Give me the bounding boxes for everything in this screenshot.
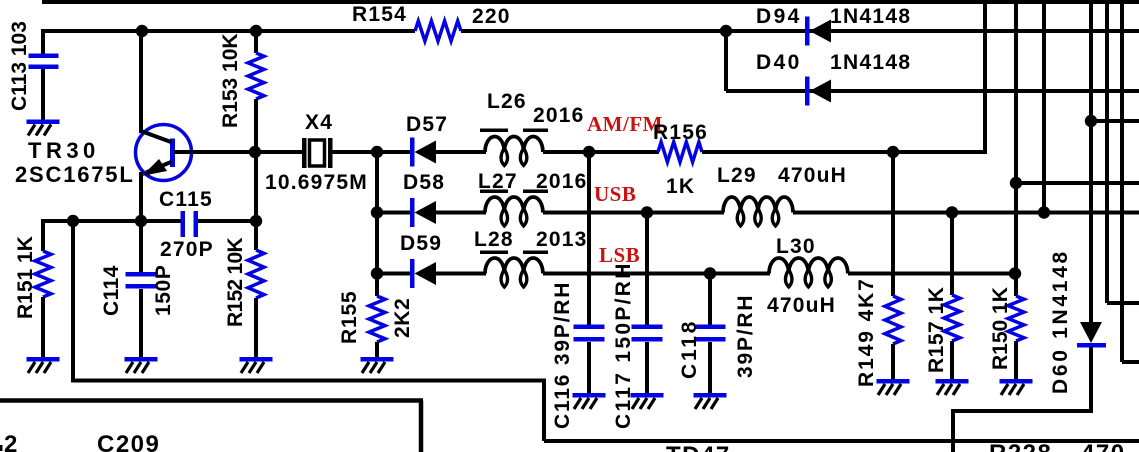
svg-text:1K: 1K <box>666 175 695 198</box>
wire D40 row <box>726 89 1139 93</box>
capacitor C118 39P/RH <box>695 325 726 330</box>
ground (R157) <box>936 379 969 395</box>
node: R150/LSB junction <box>1009 267 1021 279</box>
node: R157 tap <box>946 206 958 218</box>
svg-text:L27: L27 <box>478 170 518 193</box>
inductor L27 <box>485 197 543 213</box>
svg-text:C118: C118 <box>678 319 701 379</box>
svg-text:AM/FM: AM/FM <box>587 112 663 136</box>
svg-text:10.6975M: 10.6975M <box>265 171 368 194</box>
diode D57 <box>410 138 415 167</box>
ground (R150) <box>1000 379 1033 395</box>
wire R153 bottom lead <box>254 99 258 152</box>
svg-text:L28: L28 <box>474 228 514 251</box>
svg-text:2016: 2016 <box>536 170 588 193</box>
resistor R150 1K <box>1008 296 1024 341</box>
resistor R154 220 <box>415 21 461 41</box>
capacitor C115 270P <box>181 211 186 237</box>
node: emitter/C114 junction <box>135 215 147 227</box>
svg-text:R153 10K: R153 10K <box>219 33 242 128</box>
ground (R151) <box>27 357 60 373</box>
svg-text:R154: R154 <box>352 3 407 26</box>
svg-text:D58: D58 <box>403 171 445 194</box>
svg-text:USB: USB <box>594 182 636 206</box>
wire H2 rail right segment <box>461 29 1139 33</box>
svg-text:R150 1K: R150 1K <box>989 287 1012 370</box>
transformer L27 core bars <box>480 190 508 194</box>
wire R153 top lead <box>254 31 258 53</box>
svg-text:2013: 2013 <box>536 228 588 251</box>
svg-text:C115: C115 <box>159 188 213 211</box>
node: H2 to R153 junction <box>250 25 262 37</box>
node: y121 branch <box>1085 115 1097 127</box>
wire R155 bottom lead <box>375 342 379 358</box>
inductor L26 <box>485 137 543 153</box>
wire D57 to L26 <box>436 150 486 154</box>
svg-text:D57: D57 <box>406 113 448 136</box>
svg-text:C209: C209 <box>97 431 160 452</box>
wire D60 cathode path <box>1089 347 1093 411</box>
svg-text:R228: R228 <box>989 440 1052 452</box>
svg-text:R155: R155 <box>338 291 361 344</box>
svg-text:C114: C114 <box>100 265 123 316</box>
wire collector vertical <box>139 31 143 133</box>
svg-text:D94: D94 <box>756 5 802 28</box>
wire C116 vertical <box>587 152 591 327</box>
svg-text:C117 150P/RH: C117 150P/RH <box>612 261 635 429</box>
svg-text:470uH: 470uH <box>767 294 836 317</box>
svg-text:TD47: TD47 <box>666 442 731 452</box>
transformer L28 core bars <box>480 251 508 255</box>
svg-text:470: 470 <box>1081 440 1126 452</box>
node: bus junction on USB row <box>1038 206 1050 218</box>
resistor R156 1K <box>658 142 702 162</box>
node: C118 tap <box>704 267 716 279</box>
node: D57/D58 branch <box>371 146 383 158</box>
svg-text:L29: L29 <box>717 164 757 187</box>
node: H2 D94/D40 branch <box>720 25 732 37</box>
wire vertical x=1122 <box>1120 0 1124 362</box>
svg-text:2SC1675L: 2SC1675L <box>15 162 135 187</box>
wire L28 to L30 <box>543 272 770 276</box>
svg-text:X4: X4 <box>305 111 333 134</box>
inductor L30 470uH <box>769 258 848 274</box>
node: D59 branch <box>371 267 383 279</box>
svg-text:1N4148: 1N4148 <box>830 51 911 74</box>
wire L30 to R150 <box>848 272 1016 276</box>
wire to D58 <box>377 211 411 215</box>
inductor L28 <box>485 258 543 274</box>
wire R156 to corner <box>702 150 987 154</box>
ground (R152) <box>240 357 273 373</box>
svg-text:2K2: 2K2 <box>391 298 414 338</box>
svg-text:L26: L26 <box>487 90 527 113</box>
wire bus vertical x=1016 <box>1014 0 1018 296</box>
svg-text:R152 10K: R152 10K <box>224 238 247 327</box>
diode D60 1N4148 <box>1080 322 1102 343</box>
transformer L26 core bars <box>480 129 508 133</box>
wire base row to X4 <box>174 150 303 154</box>
transistor TR30 2SC1675L <box>136 125 192 181</box>
svg-text:R151 1K: R151 1K <box>14 236 37 319</box>
resistor R157 1K <box>944 295 960 341</box>
ground (C116) <box>573 393 606 409</box>
inductor L29 470uH <box>723 197 793 213</box>
svg-text:TR30: TR30 <box>28 138 100 163</box>
node: D58 branch <box>371 206 383 218</box>
svg-text:D40: D40 <box>756 51 802 74</box>
node: ground bus tap <box>67 215 79 227</box>
resistor R153 10K <box>248 53 264 99</box>
diode D59 <box>410 259 415 288</box>
svg-text:39P/RH: 39P/RH <box>734 294 757 378</box>
wire H2 rail left segment <box>43 29 415 33</box>
node: C117 tap <box>641 206 653 218</box>
wire vertical x=1107 <box>1105 0 1109 303</box>
capacitor C117 150P/RH <box>632 325 663 330</box>
ground (C113) <box>27 120 60 136</box>
svg-text:150P: 150P <box>152 265 175 316</box>
node: base row R153 junction <box>249 146 261 158</box>
wire ground bus <box>71 221 75 382</box>
svg-text:270P: 270P <box>160 238 214 261</box>
wire D59 to L28 <box>436 272 486 276</box>
ground (C117) <box>631 393 664 409</box>
ground (C118) <box>694 393 727 409</box>
svg-text:470uH: 470uH <box>778 164 847 187</box>
capacitor C114 150P <box>139 221 143 274</box>
wire y121 line <box>1091 119 1139 123</box>
wire bias row y221 <box>41 219 45 221</box>
ground (R155) <box>361 357 394 373</box>
svg-text:R149 4K7: R149 4K7 <box>855 277 878 387</box>
resistor R155 2K2 <box>369 296 385 342</box>
svg-text:R157 1K: R157 1K <box>925 287 948 373</box>
svg-text:R156: R156 <box>653 121 708 144</box>
wire y183 line <box>1016 181 1139 185</box>
wire vertical x=1044 <box>1042 0 1046 213</box>
wire top rail H1 <box>42 0 1139 4</box>
resistor R151 1K <box>41 221 45 251</box>
node: R149 tap <box>887 146 899 158</box>
diode D94 1N4148 <box>805 17 810 46</box>
svg-text:C113 103: C113 103 <box>8 21 31 111</box>
wire R155 top lead <box>375 274 379 296</box>
ground (C114) <box>125 357 158 373</box>
node: R152 junction <box>250 215 262 227</box>
wire emitter vertical <box>139 172 143 221</box>
wire L26 to AM/FM line <box>543 150 659 154</box>
wire D40 branch vertical <box>724 31 728 91</box>
capacitor C113 <box>29 54 59 59</box>
node: H2 to collector junction <box>136 25 148 37</box>
resistor R152 10K <box>254 221 258 250</box>
diode D58 <box>410 198 415 227</box>
wire L29 to right edge <box>793 211 1139 215</box>
ground (R149) <box>877 379 910 395</box>
wire to D59 <box>377 272 411 276</box>
svg-text:2016: 2016 <box>533 104 585 127</box>
wire D58/D59 branch vertical <box>375 152 379 274</box>
wire R157 vertical <box>950 213 954 296</box>
wire C118 vertical <box>708 274 712 328</box>
svg-text:L30: L30 <box>776 235 816 258</box>
diode D40 1N4148 <box>805 77 810 106</box>
svg-text:C116 39P/RH: C116 39P/RH <box>551 281 574 429</box>
svg-text:1N4148: 1N4148 <box>830 5 911 28</box>
wire D58 to L27 <box>436 211 486 215</box>
wire C117 vertical <box>645 213 649 328</box>
svg-text:D60 1N4148: D60 1N4148 <box>1049 249 1072 394</box>
capacitor C116 39P/RH <box>574 325 605 330</box>
wire X4 to D57 <box>332 150 411 154</box>
svg-text:D59: D59 <box>400 232 442 255</box>
svg-text:2: 2 <box>4 431 19 452</box>
node: C116 tap <box>583 146 595 158</box>
crystal X4 10.6975M <box>302 138 307 168</box>
wire vertical x=1091 (D60 anode) <box>1089 0 1093 323</box>
svg-text:220: 220 <box>472 5 511 28</box>
wire R152 drop from base row <box>254 152 258 221</box>
wire R149 vertical <box>891 152 895 296</box>
wire L27 to L29 <box>543 211 724 215</box>
wire lower block outline <box>0 398 423 403</box>
resistor R149 4K7 <box>885 296 901 344</box>
wire C113 drop from H2 <box>41 29 45 54</box>
node: y183 branch <box>1010 177 1022 189</box>
wire AM/FM riser <box>983 0 987 152</box>
